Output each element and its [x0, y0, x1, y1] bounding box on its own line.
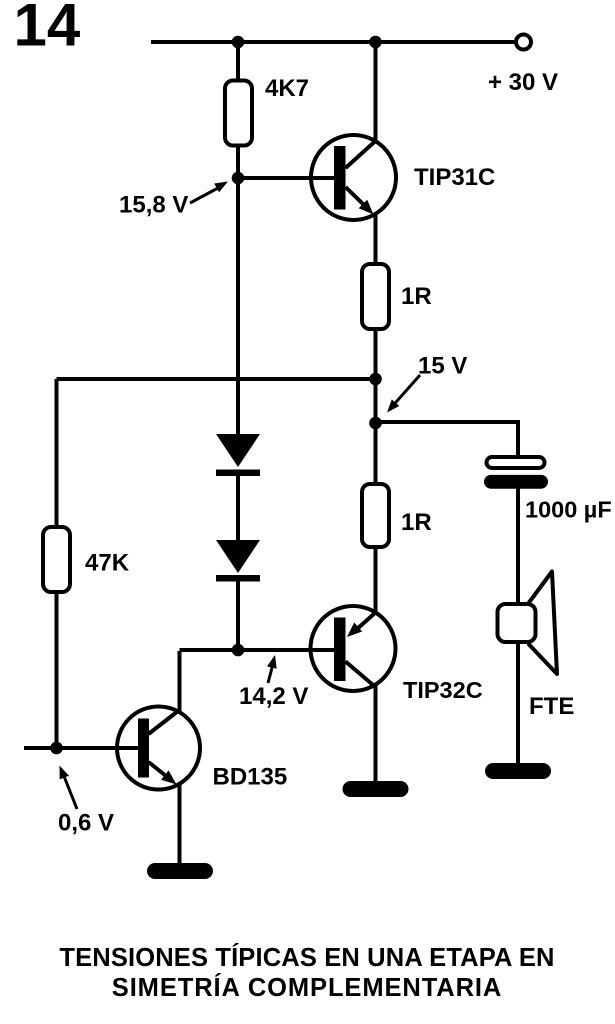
- svg-text:FTE: FTE: [529, 693, 574, 720]
- svg-text:15 V: 15 V: [418, 353, 467, 380]
- svg-text:1R: 1R: [401, 283, 432, 310]
- svg-text:1R: 1R: [401, 509, 432, 536]
- svg-text:47K: 47K: [85, 550, 130, 577]
- svg-text:TENSIONES TÍPICAS EN UNA ETAPA: TENSIONES TÍPICAS EN UNA ETAPA EN: [59, 943, 554, 972]
- svg-text:15,8 V: 15,8 V: [119, 192, 188, 219]
- svg-text:+ 30 V: + 30 V: [488, 69, 558, 96]
- svg-text:BD135: BD135: [213, 764, 288, 791]
- svg-text:4K7: 4K7: [265, 75, 309, 102]
- svg-text:14,2 V: 14,2 V: [239, 683, 308, 710]
- svg-text:TIP32C: TIP32C: [403, 677, 483, 703]
- svg-text:0,6 V: 0,6 V: [58, 810, 114, 837]
- svg-text:14: 14: [14, 0, 81, 59]
- svg-text:TIP31C: TIP31C: [414, 164, 495, 191]
- svg-text:1000 µF: 1000 µF: [525, 497, 612, 523]
- svg-text:SIMETRÍA COMPLEMENTARIA: SIMETRÍA COMPLEMENTARIA: [112, 973, 502, 1002]
